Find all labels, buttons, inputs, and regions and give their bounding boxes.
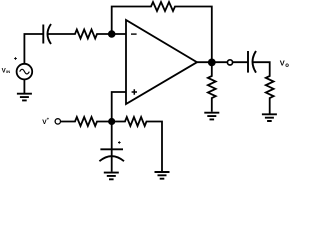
svg-text:+: + (47, 117, 50, 122)
svg-text:o: o (285, 63, 289, 69)
svg-text:IN: IN (6, 69, 10, 74)
svg-text:V: V (280, 58, 285, 67)
